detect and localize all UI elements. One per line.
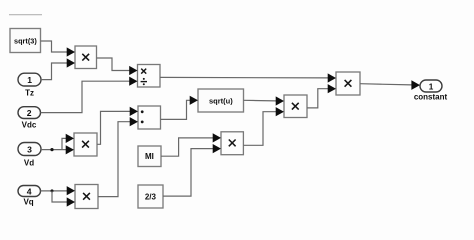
wire sum output to sqrt(u) input — [161, 96, 199, 120]
svg-text:Vq: Vq — [23, 198, 33, 207]
divide block U1 (x over divide) — [138, 65, 161, 88]
wire sqrt(3) to P1 top input — [41, 41, 76, 57]
inport In4 Vq — [18, 186, 41, 207]
svg-text:1: 1 — [429, 83, 434, 92]
scan artifact dash top-left — [9, 14, 42, 16]
wire Vd branch to P2 top input — [62, 134, 74, 150]
outport Out1 constant — [414, 80, 448, 102]
constant block 2/3 — [138, 185, 163, 208]
svg-text:MI: MI — [145, 152, 154, 161]
svg-text:2: 2 — [27, 108, 32, 118]
wire 2/3 output to P4 bottom input — [163, 144, 221, 196]
product block P2 (Vd squared) — [74, 133, 97, 156]
wire MI output to P4 top input — [161, 133, 221, 156]
product block P4 (MI x 2/3) — [221, 132, 243, 155]
product block P5 (sqrt(u) x P4) — [284, 95, 307, 118]
svg-text:sqrt(u): sqrt(u) — [209, 96, 233, 105]
svg-text:Vd: Vd — [24, 158, 34, 167]
product block P6 (final) — [336, 72, 360, 95]
svg-text:1: 1 — [27, 75, 32, 85]
wire P4 output to P5 bottom input — [243, 107, 284, 145]
wire In1 Tz to P1 bottom input — [41, 58, 75, 79]
svg-text:4: 4 — [27, 186, 32, 196]
wire In4 Vq to P3 top input — [41, 186, 76, 195]
product block P3 (Vq squared) — [75, 185, 98, 209]
wire In2 Vdc to divide bottom input — [41, 77, 138, 113]
wire Vq branch to P3 bottom input — [52, 191, 75, 207]
constant block sqrt(3) — [10, 29, 41, 53]
inport In3 Vd — [18, 143, 41, 168]
svg-text:constant: constant — [414, 93, 448, 102]
svg-text:sqrt(3): sqrt(3) — [14, 36, 37, 45]
wire P6 output to outport — [360, 80, 420, 90]
wire P2 output to sum top input — [97, 107, 138, 145]
wire P5 output to P6 bottom input — [307, 84, 336, 108]
inport In1 Tz — [18, 73, 41, 97]
wire sqrt(u) output to P5 top input — [244, 96, 285, 105]
inport In2 Vdc — [18, 107, 41, 130]
sum block S1 (dot dot) — [138, 106, 161, 129]
junction node on Vq wire — [51, 189, 54, 192]
math function block sqrt(u) — [198, 89, 244, 112]
constant block MI — [138, 146, 161, 167]
wire P1 to divide top input — [97, 58, 138, 75]
svg-text:2/3: 2/3 — [145, 193, 157, 202]
svg-text:Tz: Tz — [25, 88, 34, 97]
wire In3 Vd to P2 bottom input — [41, 145, 74, 154]
svg-text:3: 3 — [27, 145, 32, 155]
product block P1 (sqrt(3) x Tz) — [75, 46, 97, 69]
wire P3 output to sum bottom input — [98, 117, 138, 197]
svg-text:Vdc: Vdc — [22, 120, 37, 129]
wire divide output to P6 top input — [160, 73, 336, 82]
junction node on Vd wire — [50, 148, 53, 151]
